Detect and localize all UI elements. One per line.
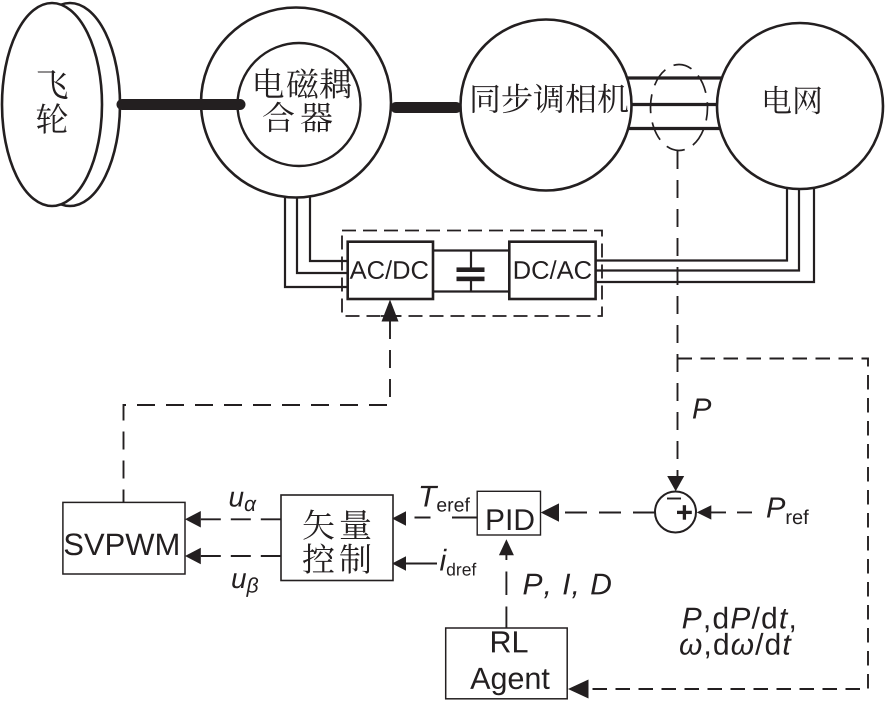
label Pref (767, 498, 809, 525)
arrowhead into AC/DC (382, 300, 399, 322)
wire DC/AC-to-grid 3-phase (595, 184, 814, 282)
arrowhead into summer from P (667, 476, 684, 491)
label SVPWM (65, 533, 178, 555)
arrowhead into RL Agent (568, 680, 589, 699)
arrowhead into vector-control Teref (392, 511, 406, 525)
arrowhead into PID from RL (499, 539, 514, 555)
label u_beta (232, 573, 258, 597)
converter dashed box segment over arrow (381, 315, 401, 317)
arrowhead into PID (541, 503, 559, 521)
label RL (492, 631, 528, 652)
arrowhead into SVPWM u_alpha (185, 511, 201, 528)
wire u_alpha dashed (201, 518, 281, 520)
wire gate dashed AC/DC to SVPWM (124, 321, 391, 502)
label idref (440, 549, 476, 576)
arrowhead into vector-control idref (392, 556, 406, 570)
label P, I, D (523, 574, 611, 598)
wire condenser-to-grid 3-phase (625, 78, 722, 129)
label AC/DC (350, 260, 428, 279)
wire RL-to-PID dashed (505, 555, 507, 628)
label condenser (473, 85, 499, 113)
label DC/AC (515, 260, 591, 279)
sensor dashed ellipse (651, 65, 708, 151)
flywheel cylinder (2, 3, 120, 206)
converter dashed box (342, 231, 602, 317)
synchronous condenser circle (461, 20, 632, 191)
grid circle (717, 23, 883, 189)
coupler inner circle (238, 43, 361, 166)
capacitor plates (457, 267, 485, 272)
AC/DC box (348, 242, 433, 299)
label coupler (256, 68, 284, 97)
DC link wires (433, 251, 510, 292)
SVPWM box (63, 502, 185, 574)
label u_alpha (230, 492, 257, 512)
shaft flywheel-coupler (122, 99, 240, 110)
wire sum-to-PID dashed (559, 512, 655, 514)
summer circle (655, 492, 696, 533)
arrowhead into SVPWM u_beta (185, 548, 201, 565)
label grid (765, 86, 791, 114)
label Teref (421, 486, 470, 512)
label vector control (303, 509, 333, 539)
wire state feedback dashed (588, 359, 868, 690)
label state vars line2 (680, 633, 792, 659)
label flywheel (38, 70, 68, 99)
label Agent (470, 668, 549, 695)
wire i_dref solid (406, 563, 437, 565)
PID box (477, 491, 540, 535)
shaft coupler-condenser (396, 102, 456, 113)
coupler outer circle (201, 8, 391, 198)
vector control box (281, 495, 393, 581)
arrowhead into summer from Pref (697, 505, 712, 519)
wire coupler-to-AC/DC 3-phase (285, 185, 349, 287)
label PID (488, 509, 534, 530)
wire u_beta dashed (201, 555, 281, 557)
label state vars line1 (683, 607, 795, 633)
RL Agent box (446, 628, 568, 699)
DC/AC box (509, 242, 595, 299)
label P measured (693, 399, 711, 419)
wire Teref dashed (415, 517, 478, 519)
wire P measurement dashed (677, 151, 679, 476)
summer signs (667, 499, 692, 520)
wire Pref dashed (711, 511, 757, 513)
